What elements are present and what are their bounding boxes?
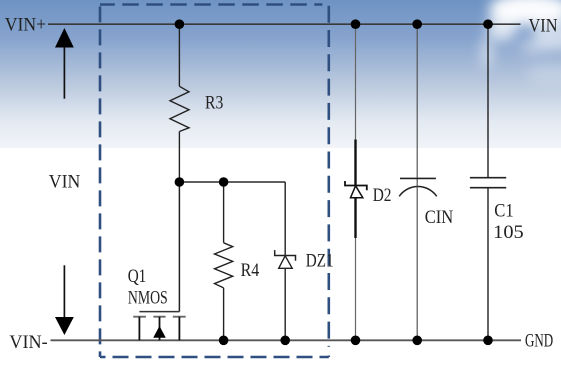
svg-text:VIN+: VIN+ <box>5 14 47 35</box>
svg-text:VIN: VIN <box>49 171 81 192</box>
svg-text:VIN: VIN <box>529 16 558 37</box>
svg-text:DZ1: DZ1 <box>306 250 334 271</box>
svg-text:NMOS: NMOS <box>128 288 168 309</box>
svg-text:Q1: Q1 <box>128 266 147 287</box>
svg-text:C1: C1 <box>494 200 513 221</box>
svg-text:VIN-: VIN- <box>9 332 47 353</box>
svg-text:GND: GND <box>525 331 553 352</box>
svg-text:R4: R4 <box>241 260 260 281</box>
svg-text:105: 105 <box>493 222 524 243</box>
svg-text:CIN: CIN <box>425 207 454 228</box>
svg-text:R3: R3 <box>205 93 223 114</box>
svg-text:D2: D2 <box>373 185 392 206</box>
